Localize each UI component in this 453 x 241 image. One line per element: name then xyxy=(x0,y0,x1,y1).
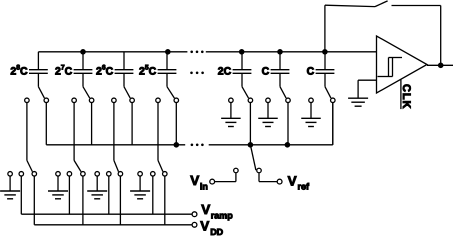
wire S9 right contact to VDD rail xyxy=(82,176,84,224)
wire S9 middle contact to Vramp rail xyxy=(68,176,70,214)
switch S1 left contact xyxy=(25,98,30,103)
ground below switch S8 xyxy=(0,176,20,198)
wire S3 right contact down to common rail xyxy=(131,103,133,145)
capacitor C2 (2^7C) xyxy=(74,52,93,87)
switch S9 (selects GND / Vramp / VDD for C2 (2^7C)) arm xyxy=(74,160,81,171)
node top-rail junction at 2^7C column xyxy=(80,49,86,55)
switch S2 right contact xyxy=(89,98,94,103)
wire Vramp rail xyxy=(21,213,192,215)
switch S5 (bottom plate of C5 (2C)) arm xyxy=(242,87,249,98)
wire S1 right contact down to common rail xyxy=(45,103,47,145)
op-amp U1 (clocked comparator) xyxy=(377,36,428,93)
wire S8 right contact to VDD rail xyxy=(33,176,35,224)
node top-rail junction at 2^5C column xyxy=(165,49,171,55)
ground below switch S10 xyxy=(87,176,107,198)
svg-text:V: V xyxy=(200,218,209,233)
switch S7 right contact xyxy=(331,98,336,103)
switch S6 left contact xyxy=(266,98,271,103)
switch S8 middle contact (Vramp) xyxy=(19,172,24,177)
capacitor C1 (2^8C) xyxy=(29,52,48,87)
wire feedback left vertical down to summing rail xyxy=(324,5,326,52)
switch S1 (bottom plate of C1 (2^8C)) arm xyxy=(38,87,44,98)
node U1 output junction xyxy=(438,63,444,69)
switch S8 (selects GND / Vramp / VDD for C1 (2^8C)) arm xyxy=(27,160,33,171)
switch S10 middle contact (Vramp) xyxy=(107,172,112,177)
value label row ellipsis between 2^5C and 2C xyxy=(190,72,204,75)
capacitor C4 (2^5C) xyxy=(158,52,177,87)
svg-text:CLK: CLK xyxy=(400,84,412,109)
wire S2 right contact down to common rail xyxy=(91,103,93,145)
wire top rail left segment (summing node) xyxy=(38,51,187,53)
wire S2 left contact down to second switch (crosses common rail) xyxy=(73,103,75,160)
switch S9 ground contact xyxy=(56,172,61,177)
wire S11 middle contact to Vramp rail xyxy=(152,176,154,214)
wire Vin contact to Vin terminal xyxy=(235,173,237,182)
switch S11 (selects GND / Vramp / VDD for C4 (2^5C)) arm xyxy=(158,160,163,171)
switch S7 (bottom plate of C7 (C)) arm xyxy=(325,87,331,98)
terminal Vin xyxy=(210,179,215,184)
switch S12 Vin contact xyxy=(234,168,239,173)
wire Vref contact to Vref terminal xyxy=(258,173,260,182)
svg-text:28C: 28C xyxy=(10,64,28,77)
node common rail junction at 2C branch xyxy=(248,142,254,148)
wire U1 CLK input xyxy=(400,79,402,109)
switch S7 left contact xyxy=(309,98,314,103)
switch S10 ground contact xyxy=(95,172,100,177)
ground below switch S9 xyxy=(48,176,68,198)
wire feedback top right segment xyxy=(392,5,441,7)
terminal Vref xyxy=(277,179,282,184)
node top-rail junction at 2C column xyxy=(239,49,245,55)
switch S10 right contact (VDD) xyxy=(118,172,123,177)
switch S9 right contact (VDD) xyxy=(81,172,86,177)
wire feedback top left segment xyxy=(325,5,375,6)
svg-text:V: V xyxy=(201,202,210,217)
svg-text:25C: 25C xyxy=(139,64,157,77)
wire S1 left contact down to second switch (crosses common rail) xyxy=(26,103,28,160)
ground at U1 inverting input xyxy=(348,80,368,106)
hysteresis symbol inside U1 xyxy=(378,58,403,77)
switch S3 left contact xyxy=(112,98,117,103)
switch S11 middle contact (Vramp) xyxy=(151,172,156,177)
switch S9 middle contact (Vramp) xyxy=(67,172,72,177)
wire common rail right segment xyxy=(209,144,333,146)
switch S2 (bottom plate of C2 (2^7C)) arm xyxy=(83,87,90,98)
switch S6 (bottom plate of C6 (C)) arm xyxy=(280,87,286,98)
switch S4 right contact xyxy=(174,98,179,103)
wire S8 middle contact to Vramp rail xyxy=(20,176,22,214)
capacitor C3 (2^6C) xyxy=(115,52,134,87)
switch S4 (bottom plate of C4 (2^5C)) arm xyxy=(167,87,174,98)
svg-text:C: C xyxy=(262,65,270,77)
ground at S7 left contact xyxy=(301,103,321,127)
switch S5 left contact xyxy=(229,98,234,103)
wire S7 right contact down to common rail xyxy=(332,103,334,145)
switch S11 ground contact xyxy=(138,172,143,177)
svg-text:2C: 2C xyxy=(218,65,232,77)
ground at S5 left contact xyxy=(221,103,241,127)
terminal Vramp xyxy=(192,212,197,217)
switch S4 left contact xyxy=(156,98,161,103)
wire top rail right segment into comparator + input xyxy=(206,51,377,53)
wire S10 right contact to VDD rail xyxy=(119,176,121,224)
wire feedback right vertical from output xyxy=(440,6,442,66)
capacitor C5 (2C) xyxy=(233,52,252,87)
capacitor C6 (C) xyxy=(271,52,290,87)
svg-text:V: V xyxy=(288,173,297,188)
svg-text:ramp: ramp xyxy=(211,211,234,221)
svg-text:26C: 26C xyxy=(96,64,114,77)
switch S11 right contact (VDD) xyxy=(163,172,168,177)
switch S10 (selects GND / Vramp / VDD for C3 (2^6C)) arm xyxy=(114,160,119,171)
node common rail ellipsis (continuation dots) xyxy=(191,144,204,147)
switch S8 right contact (VDD) xyxy=(32,172,37,177)
wire S7 right contact down to common rail right end xyxy=(332,103,334,145)
node top-rail junction at C6 column xyxy=(277,49,283,55)
ground below switch S11 xyxy=(130,176,150,198)
wire S5 right contact down to common rail xyxy=(249,103,251,145)
switch S6 right contact xyxy=(286,98,291,103)
wire S4 right contact down to common rail xyxy=(175,103,177,145)
switch S1 right contact xyxy=(44,98,49,103)
node top-rail junction at C7/feedback column xyxy=(322,49,328,55)
wire U1 output xyxy=(427,64,453,66)
wire common rail left segment xyxy=(46,144,185,146)
wire S11 right contact to VDD rail xyxy=(164,176,166,224)
terminal VDD xyxy=(192,222,197,227)
wire S3 left contact down to second switch (crosses common rail) xyxy=(113,103,115,160)
wire S10 middle contact to Vramp rail xyxy=(108,176,110,214)
node common rail junction at C6 branch xyxy=(285,142,291,148)
switch S3 (bottom plate of C3 (2^6C)) arm xyxy=(124,87,130,98)
wire VDD rail xyxy=(34,224,192,226)
switch S12 (Vin/Vref select) arm from common rail xyxy=(250,145,256,170)
node top rail ellipsis (continuation dots) xyxy=(190,51,203,54)
svg-text:C: C xyxy=(307,65,315,77)
svg-text:DD: DD xyxy=(210,227,223,237)
switch S2 left contact xyxy=(72,98,77,103)
wire S4 left contact down to second switch (crosses common rail) xyxy=(157,103,159,160)
svg-text:ref: ref xyxy=(298,181,311,191)
node common rail junction at 2^5C branch xyxy=(174,142,180,148)
wire U1 inverting input xyxy=(358,79,376,81)
capacitor C7 (C) xyxy=(316,52,335,87)
svg-text:V: V xyxy=(190,173,199,188)
switch S13 (reset) arm xyxy=(375,1,388,7)
switch S5 right contact xyxy=(248,98,253,103)
switch S12 Vref contact xyxy=(257,168,262,173)
ground at S6 left contact xyxy=(258,103,278,127)
svg-text:27C: 27C xyxy=(55,64,73,77)
switch S3 right contact xyxy=(130,98,135,103)
switch S8 ground contact xyxy=(8,172,13,177)
svg-text:in: in xyxy=(200,181,208,191)
wire S6 right contact down to common rail xyxy=(287,103,289,145)
